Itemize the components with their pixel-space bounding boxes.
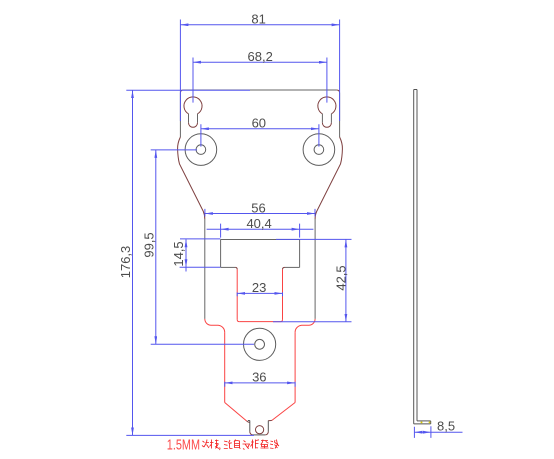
cutout top edge xyxy=(221,239,300,241)
keyhole slot right: top arc xyxy=(318,97,336,114)
bracket right neck curve xyxy=(315,137,342,219)
dimension 8,5 left arrow xyxy=(414,431,422,434)
tab bottom-left corner xyxy=(250,432,253,435)
bracket right shoulder bend xyxy=(295,319,315,333)
dimension 36 extension lines xyxy=(225,382,295,387)
tab left fillet xyxy=(247,421,250,423)
bracket middle right edge xyxy=(314,219,316,319)
svg-text:8,5: 8,5 xyxy=(437,418,455,433)
side view outer line xyxy=(413,90,415,424)
hole left outer xyxy=(185,134,217,166)
dimension 8,5 right arrow xyxy=(423,431,431,434)
dimension 14,5 extension lines xyxy=(180,239,221,267)
svg-text:68,2: 68,2 xyxy=(248,49,273,64)
dimension 23 extension lines xyxy=(237,292,282,296)
dimension 14,5 top arrow xyxy=(185,239,188,247)
hole bottom outer xyxy=(244,328,276,360)
tab right edge xyxy=(267,421,269,432)
slot bottom edge xyxy=(239,321,280,323)
svg-text:1.5MM: 1.5MM xyxy=(167,438,200,454)
dimension 176,3 extension lines xyxy=(126,90,254,435)
dimension 56 extension lines xyxy=(205,209,315,217)
dimension 40,4 left arrow xyxy=(221,228,229,231)
cutout left step fillet xyxy=(235,267,237,269)
keyhole slot right: bottom arc xyxy=(322,123,331,128)
cutout left step xyxy=(221,266,236,268)
slot bottom-left fillet xyxy=(237,320,239,322)
svg-text:56: 56 xyxy=(251,200,265,215)
dimension 99,5 line xyxy=(155,150,157,344)
dimension 60 extension lines xyxy=(201,124,319,146)
keyhole slot left: top arc xyxy=(184,97,202,114)
bracket left neck curve xyxy=(178,137,205,219)
bracket top edge xyxy=(183,89,336,91)
svg-text:36: 36 xyxy=(252,369,266,384)
bracket left shoulder bend xyxy=(205,319,225,333)
bracket middle left edge xyxy=(204,219,206,319)
slot right side xyxy=(282,269,284,319)
svg-text:176,3: 176,3 xyxy=(118,246,133,279)
note text chinese: 冷板,红色为折弯线 xyxy=(202,440,279,451)
tab omega hole xyxy=(256,426,264,434)
dimension 68,2 line xyxy=(193,61,327,63)
svg-text:40,4: 40,4 xyxy=(246,216,271,231)
dimension 60 line xyxy=(201,128,319,130)
hole right inner xyxy=(314,145,324,155)
dimension 8,5 line xyxy=(414,431,462,433)
bracket lower right edge xyxy=(294,332,296,402)
bracket right taper xyxy=(272,403,295,421)
dimension 99,5 extension lines xyxy=(151,150,254,344)
dimension 68,2 extension lines xyxy=(193,58,327,103)
hole left inner xyxy=(196,145,206,155)
tab bottom-right corner xyxy=(265,432,268,435)
dimension 42,5 extension lines xyxy=(273,239,352,321)
side view inner line xyxy=(416,90,418,421)
dimension 14,5 line xyxy=(185,239,187,271)
svg-text:81: 81 xyxy=(251,12,265,27)
dimension 36 line xyxy=(225,382,295,384)
side view foot bottom xyxy=(414,423,431,425)
bracket right edge xyxy=(339,93,341,137)
dimension 8,5 extension lines xyxy=(414,426,431,438)
side view foot end cap xyxy=(430,421,432,424)
dimension 40,4 extension lines xyxy=(221,224,300,238)
cutout right step fillet xyxy=(283,267,285,269)
cutout left side xyxy=(220,240,222,268)
cutout right step xyxy=(285,266,300,268)
side view top cap xyxy=(414,89,417,91)
svg-text:99,5: 99,5 xyxy=(141,232,156,257)
bracket left edge xyxy=(179,93,181,137)
slot bottom-right fillet xyxy=(281,320,283,322)
keyhole slot left: sides xyxy=(189,114,198,123)
cutout right side xyxy=(299,240,301,268)
tab left edge xyxy=(249,421,251,432)
dimension 40,4 right arrow xyxy=(292,228,300,231)
hole right outer xyxy=(303,134,335,166)
slot left side xyxy=(236,269,238,319)
dimension 40,4 line xyxy=(207,228,314,230)
svg-text:14,5: 14,5 xyxy=(171,241,186,266)
bracket lower left edge xyxy=(224,332,226,402)
bracket top-right corner xyxy=(337,90,340,93)
bracket left taper xyxy=(225,403,247,421)
svg-text:60: 60 xyxy=(252,116,266,131)
hole bottom inner xyxy=(255,339,265,349)
dimension 42,5 line xyxy=(345,239,347,321)
dimension 81 line xyxy=(180,24,339,26)
svg-text:23: 23 xyxy=(252,280,266,295)
svg-text:42,5: 42,5 xyxy=(333,265,348,290)
keyhole slot left: bottom arc xyxy=(189,123,198,128)
side view bend mark left xyxy=(421,421,423,423)
bracket top-left corner xyxy=(180,90,183,93)
side view foot top xyxy=(417,420,431,422)
dimension 81 extension lines xyxy=(180,20,339,122)
tab right fillet xyxy=(268,419,272,421)
keyhole slot right: sides xyxy=(322,114,331,123)
tab bottom edge xyxy=(253,434,265,436)
dimension 56 line xyxy=(205,213,315,215)
tab left cap xyxy=(248,420,250,422)
dimension 176,3 line xyxy=(132,90,134,435)
dimension 23 line xyxy=(237,292,282,294)
dimension 14,5 bottom arrow xyxy=(185,259,188,267)
side view bend mark right xyxy=(429,421,431,423)
